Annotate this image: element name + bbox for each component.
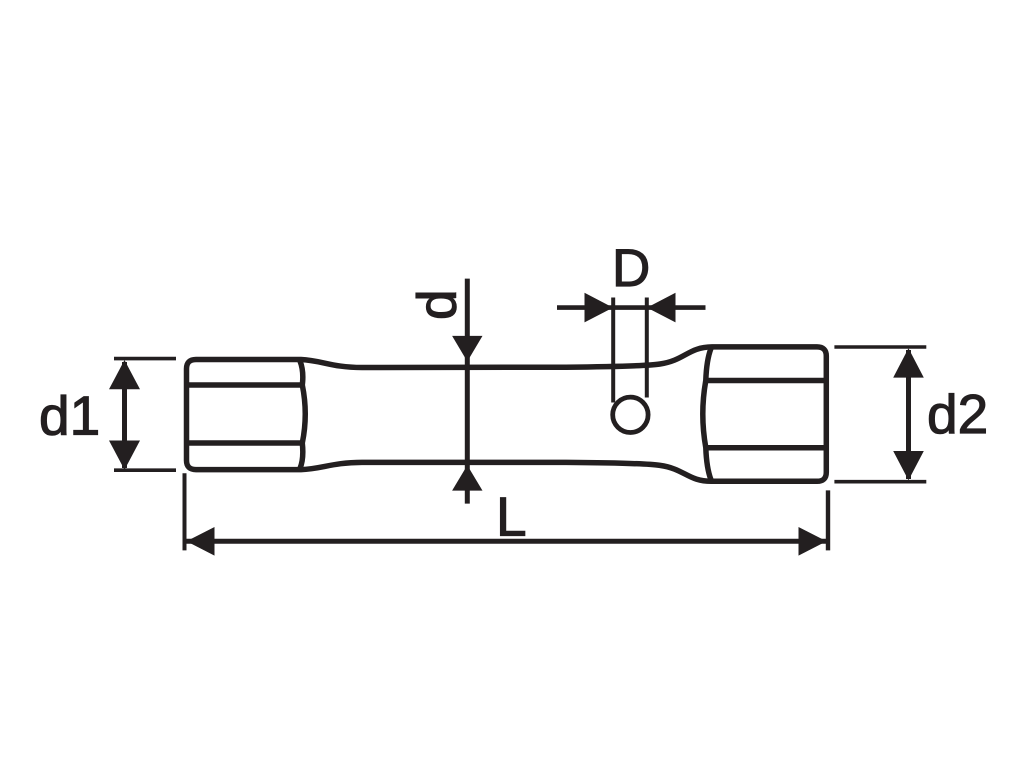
d2 down arrowhead <box>893 451 924 480</box>
left socket upper facet line <box>189 382 301 388</box>
d1 down arrowhead <box>109 441 140 470</box>
dimension d1 bottom tick <box>114 468 176 472</box>
L left extension line <box>183 473 187 550</box>
dimension D line <box>557 305 706 310</box>
hole right tangent line <box>645 298 649 398</box>
dimension d2 bottom tick <box>834 480 926 484</box>
svg-text:d1: d1 <box>39 385 100 447</box>
dimension d2 line <box>906 350 911 479</box>
D right-pointing arrowhead <box>585 293 614 323</box>
L right arrowhead <box>799 527 827 556</box>
right socket end-face boundary <box>703 348 711 480</box>
dimension L line <box>187 539 827 544</box>
left socket end-face boundary <box>300 361 305 468</box>
d up arrowhead <box>452 465 482 490</box>
dimension d line <box>465 279 470 504</box>
svg-text:L: L <box>496 486 527 548</box>
svg-text:D: D <box>612 239 650 298</box>
cross hole <box>613 397 648 432</box>
tool body silhouette <box>187 347 827 481</box>
right socket upper facet line <box>707 378 824 384</box>
right socket lower facet line <box>707 445 824 451</box>
hole left tangent line <box>611 298 615 403</box>
svg-text:d: d <box>406 289 468 320</box>
d1 up arrowhead <box>109 360 140 389</box>
svg-text:d2: d2 <box>927 383 988 445</box>
L left arrowhead <box>187 527 215 556</box>
dimension d2 top tick <box>834 345 926 349</box>
dimension d1 top tick <box>114 357 176 361</box>
L right extension line <box>826 490 830 550</box>
left socket lower facet line <box>189 440 301 446</box>
d2 up arrowhead <box>893 348 924 377</box>
d down arrowhead <box>452 336 482 362</box>
dimension d1 line <box>122 362 127 468</box>
D left-pointing arrowhead <box>647 293 676 323</box>
